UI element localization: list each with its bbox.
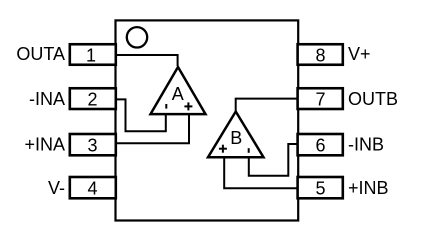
svg-text:-INB: -INB [348,135,384,155]
svg-text:V-: V- [48,178,65,198]
pin 5 number [315,179,325,199]
pin 2 number [87,90,97,110]
wire -INB pin6 to op-amp B inverting input [249,144,298,176]
pin 4 box [70,177,116,198]
svg-text:V+: V+ [348,44,371,64]
op-amp A [151,67,206,114]
pin 8 number [315,46,325,66]
label -INB [348,135,384,155]
pin 6 box [298,134,343,155]
wire OUTB pin7 to op-amp B output [236,99,298,112]
pin 7 number [315,90,325,110]
label OUTA [16,44,65,64]
svg-text:A: A [172,84,184,104]
IC body U1 [116,20,299,220]
label -INA [29,89,65,109]
svg-text:2: 2 [87,90,97,110]
pin 1 box [70,44,116,65]
op-amp B inverting mark [248,148,250,153]
pin 1 number [86,46,96,66]
label +INB [348,178,389,198]
label V- [48,178,65,198]
svg-text:1: 1 [86,46,96,66]
op-amp B [208,112,264,158]
svg-text:-INA: -INA [29,89,65,109]
svg-text:7: 7 [315,90,325,110]
label +INA [24,135,65,155]
pin 7 box [298,88,343,109]
wire +INB pin5 to op-amp B non-inverting input [224,156,298,188]
pin 1 indicator circle [127,27,147,47]
svg-text:6: 6 [315,135,325,155]
svg-text:8: 8 [315,46,325,66]
wire +INA pin3 to op-amp A non-inverting input [115,114,189,143]
pin 5 box [298,177,343,198]
pin 4 number [87,179,97,199]
label V+ [348,44,371,64]
svg-text:OUTB: OUTB [348,89,398,109]
pin 6 number [315,135,325,155]
wire OUTA pin1 to op-amp A output [115,55,178,66]
svg-text:B: B [230,128,242,148]
pin 8 box [298,44,343,65]
wire -INA pin2 to op-amp A inverting input [115,99,166,131]
op-amp B non-inverting mark [219,145,227,153]
svg-text:OUTA: OUTA [16,44,65,64]
pin 3 number [87,135,97,155]
svg-text:4: 4 [87,179,97,199]
op-amp A non-inverting mark [184,102,192,110]
label OUTB [348,89,398,109]
pin 2 box [70,88,116,109]
svg-text:+INB: +INB [348,178,389,198]
op-amp A inverting mark [165,104,167,109]
svg-text:5: 5 [315,179,325,199]
pin 3 box [70,134,116,155]
svg-text:+INA: +INA [24,135,65,155]
svg-text:3: 3 [87,135,97,155]
